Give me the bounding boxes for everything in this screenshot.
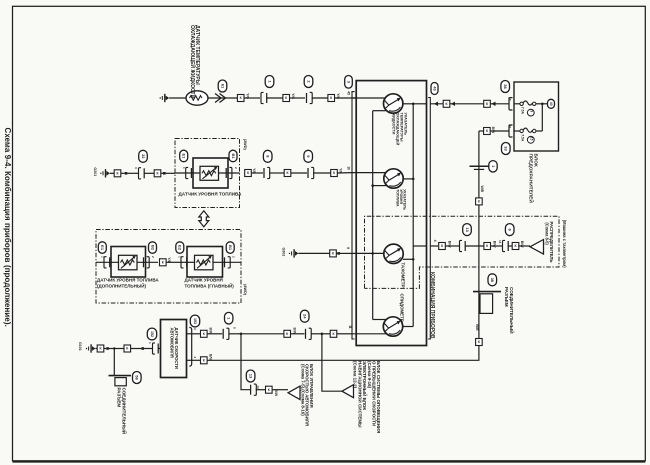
wire through aux xyxy=(96,261,119,263)
svg-text:58: 58 xyxy=(135,375,140,380)
svg-text:13: 13 xyxy=(465,227,470,232)
fuse 1 7.5A xyxy=(514,103,520,105)
wire xyxy=(352,172,386,174)
triangle to distributor xyxy=(530,240,544,255)
wire xyxy=(403,178,413,180)
vehicle speed sensor (ДАТЧИК СКОРОСТИ АВТОМОБИЛЯ) xyxy=(161,320,187,378)
tach signal row to distributor xyxy=(430,245,438,247)
wire through xyxy=(175,172,200,174)
svg-text:ТОПЛИВА (ГЛАВНЫЙ): ТОПЛИВА (ГЛАВНЫЙ) xyxy=(185,281,235,288)
fuse 2 7.5A xyxy=(514,130,520,132)
wire xyxy=(373,185,387,187)
variable resistor (fuel sender) xyxy=(200,166,219,180)
svg-text:В2: В2 xyxy=(150,245,155,251)
splice box xyxy=(237,95,244,102)
oval label 3 xyxy=(345,76,353,89)
joint connector (СОЕДИНИТЕЛЬНЫЙ РАЗЪЕМ) right xyxy=(473,291,501,293)
svg-text:В1: В1 xyxy=(228,245,233,251)
svg-text:РАЗЪЕМ: РАЗЪЕМ xyxy=(117,388,122,408)
oval label 43E top-right xyxy=(431,83,438,95)
wire down and left to speed sensor line xyxy=(207,346,479,361)
fuse box (БЛОК ПРЕДОХРАНИТЕЛЕЙ) xyxy=(514,82,559,151)
pin 3 output row xyxy=(189,327,191,366)
joint connector (СОЕДИНИТЕЛЬНЫЙ РАЗЪЕМ) bottom-left xyxy=(109,375,132,377)
harness chevron connector xyxy=(215,94,226,103)
fuel sender to cluster chain xyxy=(245,170,252,177)
svg-text:7.5А: 7.5А xyxy=(521,134,525,142)
svg-text:G302: G302 xyxy=(282,248,286,257)
wire xyxy=(373,319,387,321)
svg-text:11: 11 xyxy=(348,325,352,329)
svg-text:4: 4 xyxy=(433,240,437,242)
mid splice box xyxy=(160,259,167,266)
svg-text:(4WD): (4WD) xyxy=(243,284,247,296)
svg-text:(2WD): (2WD) xyxy=(243,139,247,151)
wire xyxy=(403,258,413,260)
svg-text:61: 61 xyxy=(220,84,225,89)
double arrow between sensor variants xyxy=(199,211,209,227)
svg-text:G201: G201 xyxy=(93,167,97,176)
svg-text:10: 10 xyxy=(256,385,260,389)
svg-text:22: 22 xyxy=(141,154,146,159)
svg-text:9: 9 xyxy=(529,110,533,112)
fuel level sensors box 4WD (dash-dot) xyxy=(96,230,241,304)
svg-text:(ДОПОЛНИТЕЛЬНЫЙ): (ДОПОЛНИТЕЛЬНЫЙ) xyxy=(97,281,147,288)
connector C-1 xyxy=(261,92,264,103)
wire to distributor xyxy=(413,245,426,247)
wire from G302 xyxy=(352,252,384,254)
svg-text:ДАТЧИК УРОВНЯ ТОПЛИВА: ДАТЧИК УРОВНЯ ТОПЛИВА xyxy=(97,278,159,283)
cluster connector bracket right xyxy=(428,98,430,340)
oval B13 xyxy=(229,150,237,162)
svg-text:13: 13 xyxy=(498,240,502,244)
oval E1B xyxy=(180,150,188,162)
variable resistor aux xyxy=(119,255,138,269)
svg-text:ОХЛАЖДАЮЩЕЙ ЖИДКОСТИ: ОХЛАЖДАЮЩЕЙ ЖИДКОСТИ xyxy=(189,25,197,99)
power bus inside cluster xyxy=(412,104,414,327)
main fuel sender housing xyxy=(187,247,223,278)
svg-text:153: 153 xyxy=(193,318,197,324)
cluster connector bracket left xyxy=(352,92,355,339)
svg-text:24: 24 xyxy=(303,314,308,319)
svg-text:КОМБИНАЦИЯ ПРИБОРОВ: КОМБИНАЦИЯ ПРИБОРОВ xyxy=(429,272,435,339)
wire xyxy=(267,97,283,99)
svg-text:13: 13 xyxy=(249,374,254,379)
svg-text:СОЕДИНИТЕЛЬНЫЙ: СОЕДИНИТЕЛЬНЫЙ xyxy=(509,287,516,334)
svg-text:38: 38 xyxy=(490,278,495,283)
svg-text:(Схема 12-2): (Схема 12-2) xyxy=(353,361,358,389)
svg-text:40: 40 xyxy=(549,102,553,106)
drop to warning/navigation triangle xyxy=(322,334,342,391)
coolant temperature sensor (ДАТЧИК ТЕМПЕРАТУРЫ ОХЛАЖДАЮЩЕЙ ЖИДКОСТИ) xyxy=(186,91,208,105)
svg-text:Е2: Е2 xyxy=(178,245,183,251)
wire xyxy=(312,97,328,99)
W/B vertical wire xyxy=(478,131,480,339)
splice box xyxy=(283,95,290,102)
splice box xyxy=(328,95,335,102)
triangle to speed control unit xyxy=(288,386,300,400)
svg-text:B/W: B/W xyxy=(274,390,278,397)
ground bus inside cluster xyxy=(372,111,374,320)
svg-text:15: 15 xyxy=(529,137,533,141)
wire xyxy=(352,97,385,99)
oval label 61 xyxy=(218,80,227,92)
svg-text:ДАТЧИК УРОВНЯ ТОПЛИВА: ДАТЧИК УРОВНЯ ТОПЛИВА xyxy=(179,191,243,196)
svg-text:45: 45 xyxy=(346,91,350,95)
fuel level sensor box 2WD (dash-dot) xyxy=(175,139,240,208)
triangle to overspeed warning & navigation units xyxy=(342,385,354,398)
wire xyxy=(169,97,186,99)
pin 2 output row xyxy=(187,359,201,361)
svg-text:РАЗЪЕМ: РАЗЪЕМ xyxy=(504,287,509,307)
connector C-2 xyxy=(310,92,313,103)
svg-text:В1: В1 xyxy=(231,153,236,159)
connector brackets xyxy=(186,167,189,178)
drop to speed control triangle xyxy=(241,334,250,390)
svg-text:АВТОМОБИЛЯ: АВТОМОБИЛЯ xyxy=(170,328,175,358)
svg-text:(Схема 7-5),(Схема 8-16): (Схема 7-5),(Схема 8-16) xyxy=(300,364,305,416)
wire xyxy=(373,110,386,112)
auxiliary fuel sender housing xyxy=(111,247,146,278)
instrument cluster (КОМБИНАЦИЯ ПРИБОРОВ) block xyxy=(356,81,426,346)
svg-text:8: 8 xyxy=(346,247,350,249)
svg-text:36: 36 xyxy=(503,84,508,89)
svg-text:33: 33 xyxy=(504,146,509,151)
svg-text:43: 43 xyxy=(432,86,437,91)
svg-text:152: 152 xyxy=(150,331,154,337)
oval 36 xyxy=(501,81,510,93)
svg-text:W/B: W/B xyxy=(480,186,484,193)
wire xyxy=(352,333,386,335)
wire to cluster pin 45 xyxy=(335,97,357,99)
wire xyxy=(403,103,413,105)
svg-text:(Машина с тахометром): (Машина с тахометром) xyxy=(562,220,567,268)
svg-text:СПИДОМЕТР: СПИДОМЕТР xyxy=(400,294,405,322)
svg-text:ЖИДКОСТИ: ЖИДКОСТИ xyxy=(392,112,396,135)
svg-text:Е1: Е1 xyxy=(100,245,105,251)
wire xyxy=(290,97,306,99)
svg-text:7.5А: 7.5А xyxy=(521,107,525,115)
inline connector on vertical wire xyxy=(470,165,489,167)
oval 33 xyxy=(502,143,511,155)
fuse2 feed wire xyxy=(490,130,509,132)
fuse junction xyxy=(536,103,542,105)
svg-text:ДАТЧИК УРОВНЯ: ДАТЧИК УРОВНЯ xyxy=(185,278,223,283)
wire xyxy=(208,97,237,99)
variable resistor main xyxy=(195,255,214,269)
svg-text:Е1: Е1 xyxy=(182,154,187,160)
svg-text:B/W: B/W xyxy=(447,241,451,248)
svg-text:16: 16 xyxy=(346,166,350,170)
svg-text:Схема 9-4. Комбинация приборов: Схема 9-4. Комбинация приборов (продолже… xyxy=(3,128,12,327)
wire xyxy=(244,97,260,99)
svg-text:ТАХОМЕТР: ТАХОМЕТР xyxy=(400,262,405,287)
svg-text:G101: G101 xyxy=(78,342,82,351)
wires main xyxy=(213,261,241,263)
wire xyxy=(403,326,414,328)
svg-text:B/W: B/W xyxy=(491,127,495,134)
svg-text:B/W: B/W xyxy=(492,241,496,248)
svg-text:(Схема 8-5): (Схема 8-5) xyxy=(545,222,550,245)
feed wire cluster to fuse box xyxy=(430,103,509,105)
svg-text:B/W: B/W xyxy=(209,354,213,361)
splice box on vertical xyxy=(476,198,483,205)
ground (body) at coolant temp sensor xyxy=(160,97,161,98)
inner housing xyxy=(193,158,228,188)
svg-text:B/W: B/W xyxy=(520,241,524,248)
svg-text:W/B: W/B xyxy=(475,324,479,331)
dash-dot box: cars with tachometer (Машина с тахометром) xyxy=(365,216,560,288)
svg-text:ТОПЛИВА: ТОПЛИВА xyxy=(396,189,400,207)
wire to fuse feed xyxy=(413,103,426,105)
drop to joint connector xyxy=(113,349,115,376)
